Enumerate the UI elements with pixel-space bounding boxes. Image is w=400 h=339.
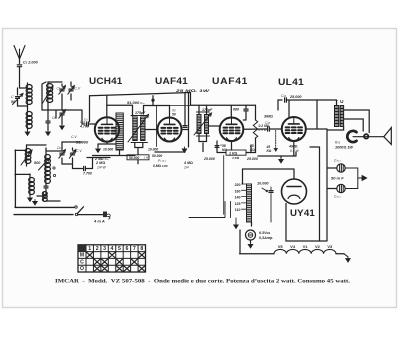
wire under UCH41 — [98, 142, 120, 155]
wire rail drop left — [89, 96, 91, 122]
trimmer C7 — [70, 153, 74, 155]
voltage selector winding — [247, 184, 252, 222]
svg-text:8: 8 — [140, 246, 143, 252]
svg-text:1/4 W: 1/4 W — [97, 166, 107, 170]
svg-text:C8: C8 — [52, 116, 56, 120]
svg-text:51.000 C₂₃: 51.000 C₂₃ — [127, 100, 144, 105]
svg-text:UAF41: UAF41 — [212, 76, 248, 86]
svg-text:25.000: 25.000 — [246, 157, 258, 161]
svg-text:C: C — [11, 95, 14, 99]
svg-text:2: 2 — [96, 246, 99, 252]
svg-text:500: 500 — [34, 161, 41, 165]
svg-text:1: 1 — [88, 246, 91, 252]
wire UY41 box — [252, 204, 327, 242]
wire right of UAF41 — [182, 93, 189, 147]
svg-text:160: 160 — [235, 189, 241, 193]
resistor box 50.000 1W — [127, 155, 149, 160]
coil L3 oscillator — [47, 84, 53, 88]
wires under UAF41b — [203, 141, 251, 153]
capacitor on x185 — [183, 126, 187, 128]
mains plug — [103, 212, 107, 218]
capacitor below L6 — [44, 186, 48, 188]
wires band section top — [27, 142, 83, 151]
svg-text:IMCAR - Modd. VZ 507-508 -: IMCAR - Modd. VZ 507-508 - Onde medie e … — [55, 278, 351, 284]
junction blob — [152, 99, 154, 101]
svg-text:O: O — [80, 266, 84, 272]
tube UL41 — [282, 117, 306, 141]
svg-text:0.MΩ 1/4W: 0.MΩ 1/4W — [153, 164, 168, 168]
svg-text:50.000: 50.000 — [152, 154, 162, 158]
svg-text:0,3Amp.: 0,3Amp. — [259, 236, 273, 240]
speaker voice coil — [364, 134, 368, 138]
bracket and arrow B+ out — [345, 168, 362, 189]
svg-text:C5: C5 — [57, 87, 61, 91]
svg-text:175pF: 175pF — [202, 108, 213, 112]
tube UCH41 — [95, 117, 119, 141]
svg-text:V3: V3 — [327, 244, 333, 249]
ground converter — [46, 130, 50, 135]
svg-text:0.1 W: 0.1 W — [290, 149, 300, 153]
wire mains to selector — [189, 202, 231, 218]
ground filament end — [344, 254, 348, 257]
svg-text:25.000: 25.000 — [289, 95, 302, 99]
svg-text:6.3Vᴏʟ: 6.3Vᴏʟ — [259, 231, 271, 235]
wire IFT1 to UAF41 — [135, 130, 158, 148]
svg-text:3: 3 — [103, 246, 106, 252]
svg-text:51.000: 51.000 — [76, 140, 89, 145]
svg-text:7.700: 7.700 — [83, 172, 92, 176]
svg-text:5: 5 — [118, 246, 121, 252]
band switch table grid — [78, 245, 146, 272]
electrolytic C15b — [337, 184, 345, 192]
wire left column — [15, 150, 30, 207]
wire TU primary top — [309, 100, 337, 106]
svg-text:50: 50 — [11, 100, 15, 104]
svg-text:110: 110 — [235, 208, 241, 212]
svg-text:UAF41: UAF41 — [155, 76, 188, 86]
ground right UAF41 — [182, 147, 186, 152]
wire antenna lead — [19, 59, 21, 88]
wire filament bus — [240, 230, 275, 254]
svg-text:1000Ω 1W: 1000Ω 1W — [335, 146, 353, 150]
capacitor C8 — [46, 121, 50, 123]
ground L5 — [28, 196, 32, 201]
wire to mixer grid — [68, 110, 85, 124]
tube UAF41 first — [158, 118, 182, 142]
wire B+ column — [327, 127, 344, 242]
svg-text:10.000: 10.000 — [148, 148, 158, 152]
svg-text:C.V: C.V — [71, 135, 77, 139]
svg-text:4 KΩ: 4 KΩ — [231, 156, 240, 160]
output transformer TU — [335, 106, 339, 127]
wire HT rail (tilted scan) — [90, 93, 191, 96]
svg-text:R13: R13 — [335, 141, 341, 145]
svg-text:2 MΩ: 2 MΩ — [95, 161, 105, 165]
svg-text:7: 7 — [133, 246, 136, 252]
wire AVC bus — [93, 152, 186, 156]
svg-text:50 m F: 50 m F — [331, 176, 344, 181]
ground UL41 — [280, 156, 282, 158]
grid capacitor UCH41 — [87, 122, 89, 126]
svg-text:C6: C6 — [57, 146, 61, 150]
trimmer padder — [60, 113, 64, 115]
coupling capacitor C13 — [268, 127, 270, 131]
svg-text:UCH41: UCH41 — [89, 76, 123, 86]
svg-text:140: 140 — [235, 196, 241, 200]
svg-text:KΩ: KΩ — [267, 149, 272, 153]
speaker cone — [384, 128, 392, 145]
wire IFT2 to UAF41b — [199, 126, 220, 142]
svg-text:368Ω: 368Ω — [264, 115, 273, 119]
ground below L2 — [25, 130, 29, 135]
resistor box 50.000 — [116, 113, 123, 150]
speaker pole line — [353, 136, 384, 138]
ground L7 — [33, 200, 37, 205]
svg-text:125: 125 — [235, 202, 241, 206]
ground selector — [234, 223, 238, 228]
band coil L5 — [29, 178, 35, 183]
tube UAF41 second — [220, 118, 244, 142]
filament chain V5 V4 V1 V2 V3 — [274, 249, 336, 253]
wire UL41 plate right — [306, 100, 327, 129]
trimmer C4 tuning gang — [69, 89, 73, 91]
coil L1 antenna primary — [26, 85, 32, 90]
pilot lamp — [246, 230, 256, 240]
tube UY41 — [282, 179, 307, 204]
wire IFT1 top — [107, 105, 170, 116]
wire to mains plug — [78, 214, 103, 216]
svg-text:10.000: 10.000 — [103, 148, 113, 152]
screening box UAF41 — [157, 106, 191, 147]
antenna — [14, 46, 25, 60]
svg-text:C14: C14 — [281, 94, 287, 98]
potentiometer 1K box — [226, 150, 246, 155]
IF transformer 1 — [131, 116, 148, 143]
svg-text:4: 4 — [111, 246, 114, 252]
ground pilot lamp — [250, 240, 252, 243]
wire osc box top — [42, 82, 46, 110]
svg-text:UL41: UL41 — [278, 77, 304, 87]
ground UCH41 cathode — [96, 147, 100, 152]
svg-text:C.V: C.V — [76, 149, 82, 153]
capacitor C1 — [17, 65, 21, 67]
IF transformer 2 — [197, 112, 210, 136]
cathode UL41 — [258, 141, 296, 156]
link switch to mains — [223, 156, 225, 215]
link arrow 45K — [275, 131, 277, 148]
capacitor right of IFT2 top — [244, 109, 248, 111]
converter grid cluster wires — [42, 102, 68, 120]
capacitor C14 — [285, 98, 287, 102]
band switch contacts — [53, 167, 55, 169]
wire C14 plate — [278, 100, 309, 117]
wire UCH41 anode top — [106, 96, 108, 118]
selector taps — [242, 184, 247, 209]
table X marks — [87, 252, 145, 271]
svg-text:25.000: 25.000 — [203, 157, 215, 161]
svg-text:1/4: 1/4 — [184, 166, 189, 170]
svg-text:UY41: UY41 — [290, 208, 315, 219]
svg-text:4 MΩ: 4 MΩ — [183, 161, 193, 165]
wire TU secondary to voice coil top — [344, 110, 370, 133]
svg-text:C13: C13 — [265, 121, 271, 125]
svg-text:1 W: 1 W — [144, 156, 149, 160]
svg-text:M: M — [80, 253, 84, 259]
ground padder — [60, 124, 64, 129]
mains loop wires — [14, 207, 74, 214]
wire UAF41 anode top — [169, 106, 171, 118]
capacitor C12 — [215, 146, 219, 148]
coil L2 antenna secondary — [26, 112, 32, 117]
coil L6 mid column — [45, 155, 51, 160]
svg-text:10.000: 10.000 — [257, 182, 269, 186]
table header fill — [78, 245, 86, 252]
svg-text:25 MΩ. 1W: 25 MΩ. 1W — [174, 88, 209, 93]
svg-text:50: 50 — [172, 113, 176, 117]
resistor 0.2M — [253, 120, 257, 138]
svg-text:6: 6 — [125, 246, 128, 252]
wire TU secondary to voice coil left — [344, 119, 364, 131]
svg-text:2 MΩ C₁₆: 2 MΩ C₁₆ — [94, 157, 108, 161]
svg-text:4 m A: 4 m A — [93, 219, 105, 224]
svg-text:490Ω: 490Ω — [288, 145, 298, 149]
wire power box top — [243, 169, 295, 184]
band coil L4 — [25, 149, 31, 153]
wire IFT2 top — [191, 93, 256, 118]
capacitor 7700 — [84, 166, 86, 170]
svg-text:V4: V4 — [290, 244, 296, 249]
svg-text:C1 2.000: C1 2.000 — [23, 61, 39, 65]
svg-text:P1 H c: P1 H c — [158, 159, 167, 163]
wire band bus — [73, 158, 111, 169]
trimmer C5 tuning gang — [60, 89, 64, 91]
svg-text:220: 220 — [235, 183, 241, 187]
svg-text:1 KΩ: 1 KΩ — [229, 151, 238, 155]
wire second B+ vertical — [310, 147, 320, 241]
speaker magnet — [347, 131, 356, 142]
svg-text:C.V: C.V — [75, 87, 81, 91]
svg-text:V1: V1 — [303, 244, 309, 249]
svg-text:175pF: 175pF — [135, 111, 146, 115]
coil L7 bottom — [42, 192, 47, 196]
svg-text:V5: V5 — [278, 244, 284, 249]
svg-text:V2: V2 — [315, 244, 321, 249]
trimmer C6 — [60, 153, 64, 155]
svg-text:680: 680 — [233, 108, 239, 112]
switch S1 — [75, 206, 77, 208]
svg-text:C: C — [80, 259, 84, 265]
svg-text:4.700: 4.700 — [79, 125, 89, 129]
capacitor C2 50 — [16, 97, 20, 99]
